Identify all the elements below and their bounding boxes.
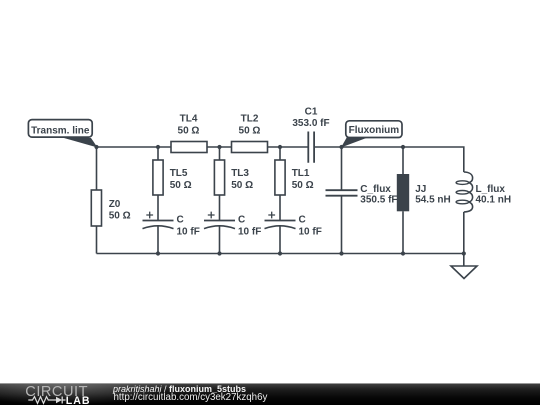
footer bar (0, 383, 540, 405)
wire top rail right of C1 to corner and down to L_flux (315, 147, 464, 172)
svg-text:C: C (238, 214, 245, 225)
junction dots bottom rail (156, 251, 466, 255)
resistor TL5 (153, 160, 192, 195)
svg-text:50 Ω: 50 Ω (170, 180, 192, 191)
svg-text:TL4: TL4 (180, 114, 198, 125)
svg-text:10 fF: 10 fF (238, 226, 261, 237)
wire bottom rail (97, 253, 464, 255)
svg-text:LAB: LAB (66, 395, 91, 405)
footer text project name (113, 384, 246, 394)
inductor L_flux (456, 172, 511, 212)
svg-text:50 Ω: 50 Ω (292, 180, 314, 191)
Josephson junction JJ (397, 174, 451, 211)
svg-text:10 fF: 10 fF (177, 226, 200, 237)
svg-text:TL1: TL1 (292, 168, 310, 179)
capacitor C (10 fF) at TL1 stub (265, 212, 322, 238)
capacitor C (10 fF) at TL3 stub (204, 212, 261, 238)
resistor TL4 (171, 114, 207, 153)
node label callout Fluxonium (341, 121, 402, 148)
svg-text:40.1 nH: 40.1 nH (476, 195, 512, 206)
svg-text:TL2: TL2 (241, 114, 259, 125)
capacitor C1 (292, 107, 329, 163)
ground (451, 266, 477, 279)
svg-text:C: C (177, 214, 184, 225)
wire JJ leads (402, 147, 404, 254)
svg-text:50 Ω: 50 Ω (178, 126, 200, 137)
svg-text:50 Ω: 50 Ω (231, 180, 253, 191)
svg-text:TL3: TL3 (231, 168, 249, 179)
svg-text:C_flux: C_flux (360, 184, 391, 195)
resistor TL2 (232, 114, 268, 153)
svg-text:350.5 fF: 350.5 fF (360, 195, 397, 206)
footer text url (114, 392, 268, 403)
svg-text:TL5: TL5 (170, 168, 188, 179)
resistor TL3 (214, 160, 253, 195)
wire stub TL5/C leads (157, 147, 159, 254)
svg-text:JJ: JJ (415, 184, 426, 195)
resistor TL1 (275, 160, 314, 195)
svg-text:54.5 nH: 54.5 nH (415, 195, 451, 206)
node label callout Transm. line (28, 120, 97, 148)
svg-text:353.0 fF: 353.0 fF (292, 118, 329, 129)
footer logo CircuitLab (0, 383, 110, 405)
svg-text:C1: C1 (305, 107, 318, 118)
capacitor C_flux (326, 184, 398, 205)
junction dots top rail (94, 145, 405, 149)
svg-text:Fluxonium: Fluxonium (349, 125, 400, 136)
wire L_flux bottom lead and ground lead (463, 212, 465, 266)
resistor Z0 (91, 190, 130, 226)
svg-text:50 Ω: 50 Ω (109, 211, 131, 222)
wire top rail between TL4 and TL2 (207, 146, 232, 148)
svg-text:10 fF: 10 fF (299, 226, 322, 237)
svg-text:50 Ω: 50 Ω (239, 126, 261, 137)
wire C_flux leads (341, 147, 343, 254)
wire top rail left segment (97, 146, 172, 148)
svg-text:C: C (299, 214, 306, 225)
svg-text:Z0: Z0 (109, 199, 121, 210)
svg-text:L_flux: L_flux (476, 184, 506, 195)
svg-text:Transm. line: Transm. line (31, 126, 90, 137)
wire stub TL1/C leads (279, 147, 281, 254)
wire stub TL3/C leads (219, 147, 221, 254)
capacitor C (10 fF) at TL5 stub (143, 212, 200, 238)
wire left rail Z0 leads (96, 147, 98, 254)
wire top rail between TL2 and C1 (268, 146, 309, 148)
